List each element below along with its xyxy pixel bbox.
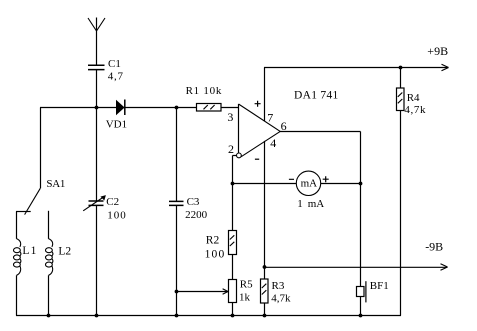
svg-text:C3: C3 bbox=[187, 196, 200, 208]
svg-text:VD1: VD1 bbox=[106, 119, 127, 131]
svg-text:4,7k: 4,7k bbox=[271, 293, 291, 305]
svg-text:L2: L2 bbox=[58, 245, 71, 257]
svg-text:R5: R5 bbox=[240, 279, 253, 291]
svg-text:mA: mA bbox=[301, 177, 318, 189]
svg-text:4,7k: 4,7k bbox=[404, 104, 426, 116]
svg-text:4,7: 4,7 bbox=[108, 71, 124, 83]
svg-text:100: 100 bbox=[107, 209, 127, 221]
svg-text:2: 2 bbox=[228, 142, 234, 156]
svg-text:100: 100 bbox=[205, 248, 226, 260]
svg-text:C1: C1 bbox=[108, 58, 121, 70]
svg-text:1 mA: 1 mA bbox=[297, 198, 324, 210]
svg-text:-9B: -9B bbox=[425, 240, 443, 254]
svg-text:C2: C2 bbox=[106, 196, 119, 208]
svg-text:R3: R3 bbox=[272, 280, 285, 292]
svg-text:7: 7 bbox=[267, 110, 273, 124]
svg-text:4: 4 bbox=[270, 136, 276, 150]
svg-text:1k: 1k bbox=[239, 292, 251, 304]
svg-text:2200: 2200 bbox=[185, 209, 208, 221]
svg-text:DA1 741: DA1 741 bbox=[294, 90, 339, 102]
svg-text:L1: L1 bbox=[22, 245, 37, 257]
svg-text:3: 3 bbox=[227, 110, 233, 124]
svg-text:R4: R4 bbox=[407, 92, 420, 104]
svg-text:BF1: BF1 bbox=[370, 280, 389, 292]
svg-text:6: 6 bbox=[281, 119, 287, 133]
svg-text:R2: R2 bbox=[206, 234, 220, 246]
svg-text:R1 10k: R1 10k bbox=[186, 85, 223, 97]
svg-text:+9B: +9B bbox=[427, 44, 448, 58]
svg-text:SA1: SA1 bbox=[46, 178, 65, 190]
